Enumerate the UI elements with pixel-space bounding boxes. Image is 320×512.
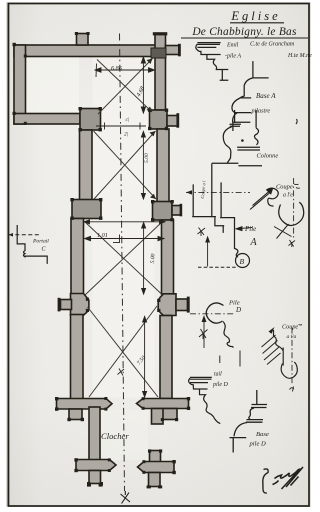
svg-text:Base A: Base A xyxy=(256,92,276,100)
row5 west band xyxy=(76,460,116,471)
west chevron pier xyxy=(71,294,89,316)
asterisk mark xyxy=(289,240,296,247)
west wall segment C xyxy=(71,315,84,400)
ticks row4 west band xyxy=(55,397,58,400)
T-cap stub top right xyxy=(178,44,181,57)
svg-text:-pile A: -pile A xyxy=(225,54,241,60)
vertical dim bay2 xyxy=(142,132,144,200)
rib X bay2 xyxy=(94,131,157,199)
pile A dash-dot axis xyxy=(186,191,250,193)
corner ticks east pier row1 xyxy=(148,109,151,112)
rib X bay3 xyxy=(85,222,163,296)
row4 west band xyxy=(57,399,113,410)
svg-text:a l'a: a l'a xyxy=(287,334,297,340)
dimension 4.68 vertical line xyxy=(142,57,144,113)
tower west wall lower xyxy=(89,471,101,484)
coupe lower U curl xyxy=(281,362,297,378)
apostrophe mark xyxy=(296,119,297,124)
T-cap east buttress stub xyxy=(187,297,190,313)
west buttress stub xyxy=(61,300,72,310)
row5 east band xyxy=(138,462,175,473)
rib X bay1 xyxy=(97,59,153,115)
axis end mark xyxy=(121,491,131,504)
corner ticks west pier row1 xyxy=(79,107,82,110)
west pier row1 xyxy=(80,109,101,131)
svg-text:C.te de Grancham: C.te de Grancham xyxy=(250,42,295,48)
Ht mark pile D xyxy=(199,329,208,339)
coupe lower dash-dot xyxy=(291,328,293,386)
svg-text:Coupe: Coupe xyxy=(276,184,293,191)
ticks east tower bar upper xyxy=(148,449,151,452)
east pier row1 xyxy=(150,110,168,129)
east wall segment 4 xyxy=(160,316,172,399)
X cross below U xyxy=(274,224,292,239)
svg-text:pilastre: pilastre xyxy=(251,108,271,115)
svg-text:A: A xyxy=(250,237,258,248)
Portail C sketch step profile xyxy=(17,225,47,264)
row4 east bar below xyxy=(152,409,164,425)
svg-text:Clocher: Clocher xyxy=(101,431,129,441)
svg-text:Colonne: Colonne xyxy=(257,153,279,160)
svg-text:Portail: Portail xyxy=(32,239,49,245)
pile D dash-dot xyxy=(190,313,235,315)
pile D lower profile xyxy=(223,322,234,348)
arrow to Pile A xyxy=(236,227,252,231)
corner ticks chapel xyxy=(13,43,16,46)
signature script xyxy=(273,467,304,489)
base A pilaster profile xyxy=(232,61,269,131)
small a mark xyxy=(290,387,294,392)
pile A vertical dim arrow xyxy=(206,237,210,267)
vertical dim bay4 xyxy=(144,317,146,398)
junction dark blob at top of east wall xyxy=(151,48,166,58)
east wall segment 3 xyxy=(162,220,174,294)
cornice tail pile D xyxy=(189,377,221,423)
svg-text:a l'e: a l'e xyxy=(283,193,293,199)
svg-text:5.00: 5.00 xyxy=(150,253,157,263)
svg-text:c|: c| xyxy=(126,117,130,123)
cornice tail pile A xyxy=(196,43,229,81)
pile A dashed base line xyxy=(198,266,237,268)
pile D dim arrow xyxy=(202,317,206,349)
coupe lower hatching xyxy=(262,335,281,365)
signature flourish xyxy=(263,469,268,493)
chevron ticks east xyxy=(157,299,160,302)
circled B xyxy=(236,254,250,268)
colonne dot xyxy=(241,139,244,142)
east pier row2 xyxy=(153,202,173,221)
svg-text:2|: 2| xyxy=(124,132,128,138)
west wall segment A xyxy=(80,130,93,200)
east pier row1 stub xyxy=(167,116,178,127)
pile D C-ring xyxy=(206,303,223,323)
svg-text:6.86: 6.86 xyxy=(111,65,123,72)
vertical dim bay3 xyxy=(143,223,145,295)
svg-text:D: D xyxy=(235,306,241,314)
ticks row4 east band xyxy=(187,397,190,400)
arch line under pier row2 xyxy=(84,221,165,223)
tower east wall lower xyxy=(149,473,161,487)
base pile D profile xyxy=(230,390,268,453)
west pier row2 xyxy=(72,200,101,219)
row4 east stub square xyxy=(163,409,178,420)
cap east wall top xyxy=(153,32,168,35)
Ht mark pile A xyxy=(198,228,206,237)
svg-text:pile D: pile D xyxy=(212,382,228,388)
small dim line below bay1 xyxy=(96,125,146,127)
tower west wall xyxy=(89,407,100,461)
rib X bay4 xyxy=(88,306,159,397)
chapel left wall xyxy=(14,45,26,124)
svg-text:De Chabbigny. le Bas: De Chabbigny. le Bas xyxy=(191,26,297,38)
T-cap west buttress stub xyxy=(58,298,61,312)
buttress on top wall xyxy=(77,34,89,46)
feet tower west bottom xyxy=(87,484,91,487)
svg-text:Pile: Pile xyxy=(244,225,256,233)
big U profile xyxy=(279,202,304,225)
svg-text:B: B xyxy=(240,257,245,266)
dimension 6.86 line xyxy=(95,69,155,71)
Portail C dash line xyxy=(9,234,41,236)
west wall segment B xyxy=(71,219,84,295)
svg-text:tail: tail xyxy=(214,372,222,378)
corner ticks west pier row2 xyxy=(70,198,73,201)
dimension 1.01 line xyxy=(85,238,165,240)
T-cap east pier row2 stub xyxy=(180,204,183,217)
double arrow to coupe xyxy=(250,189,273,210)
svg-text:pile D: pile D xyxy=(249,441,267,448)
east tower bar upper xyxy=(150,451,161,463)
chevron ticks west xyxy=(86,298,89,301)
ticks row5 east band xyxy=(172,460,175,463)
row4 west stub below xyxy=(69,409,82,420)
chapel top wall xyxy=(14,45,156,57)
svg-text:5.00: 5.00 xyxy=(144,153,150,163)
T-cap east pier row1 stub xyxy=(176,113,179,128)
coupe lower profile xyxy=(269,327,275,334)
east chevron pier xyxy=(158,294,176,316)
east wall segment 2 xyxy=(157,129,169,202)
chapel bottom wall xyxy=(14,114,80,125)
svg-text:Coupe: Coupe xyxy=(282,324,298,331)
ticks row5 west band xyxy=(74,458,77,461)
svg-text:Emil: Emil xyxy=(226,43,239,49)
colonne base profile xyxy=(212,110,262,166)
connector line pile D to base xyxy=(220,351,240,367)
corner ticks buttress top xyxy=(75,32,78,35)
feet tower east bottom xyxy=(147,485,151,488)
stub right of east wall top xyxy=(166,46,180,55)
east wall top segment xyxy=(155,34,166,110)
east buttress stub xyxy=(176,299,188,311)
svg-text:Eglise: Eglise xyxy=(230,9,280,23)
svg-text:1.01: 1.01 xyxy=(97,232,108,239)
central axis dash-dot line xyxy=(120,34,125,492)
corner ticks east pier row2 xyxy=(151,200,154,203)
pile A plan detail xyxy=(192,164,238,258)
curl profile upper xyxy=(267,188,279,206)
plan interior highlight xyxy=(26,57,79,113)
row4 east band xyxy=(137,399,189,409)
svg-text:H.te M.ne: H.te M.ne xyxy=(287,53,312,59)
east pier row2 stub xyxy=(172,206,181,216)
dash-dot vertical at coupe xyxy=(293,178,295,240)
svg-text:Base: Base xyxy=(256,431,269,438)
